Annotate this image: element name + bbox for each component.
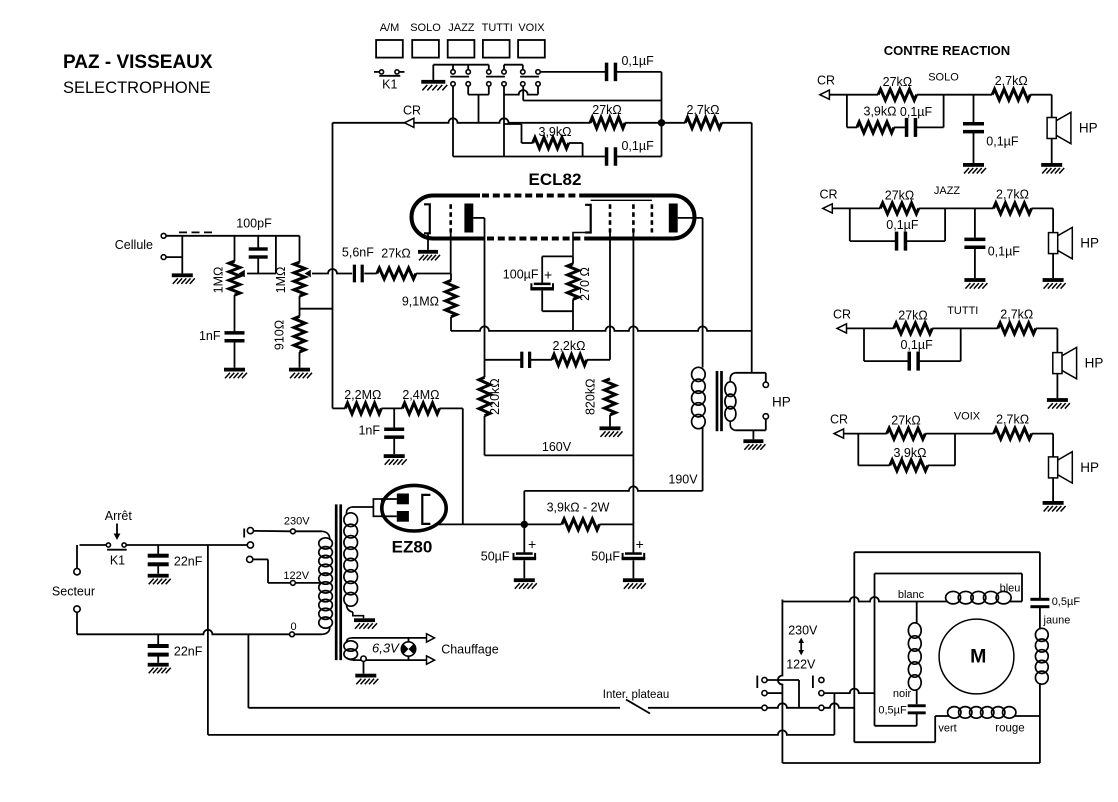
svg-text:27kΩ: 27kΩ <box>883 75 913 89</box>
motor outer box <box>853 552 855 742</box>
JAZZ parallel branch 0,1uF <box>849 208 851 241</box>
CR vertical line <box>332 123 334 409</box>
wiper line to 5.6nF <box>312 269 352 274</box>
svg-text:27kΩ: 27kΩ <box>592 103 622 117</box>
resistor 27k-ohm (TUTTI) <box>864 327 894 329</box>
svg-text:160V: 160V <box>542 440 572 454</box>
HP output terminals <box>735 372 766 374</box>
svg-text:0,1µF: 0,1µF <box>900 338 933 352</box>
vert-rouge winding <box>935 715 949 717</box>
ground HP (JAZZ) <box>1043 278 1064 282</box>
svg-text:190V: 190V <box>668 473 698 487</box>
svg-text:JAZZ: JAZZ <box>934 185 961 197</box>
SOLO parallel branch 3,9k + 0,1uF <box>846 95 848 128</box>
CR arrow (TUTTI) <box>837 327 864 329</box>
svg-text:230V: 230V <box>284 516 310 528</box>
resistor 3,9k-ohm (switch) <box>533 138 569 149</box>
pentode cathode <box>585 205 591 233</box>
node junction dot <box>658 119 665 126</box>
svg-text:0: 0 <box>290 621 296 633</box>
svg-text:+: + <box>544 267 552 283</box>
svg-text:100µF: 100µF <box>503 268 539 282</box>
svg-text:0,1µF: 0,1µF <box>621 139 654 153</box>
shield dashed <box>179 231 214 233</box>
svg-text:6,3V: 6,3V <box>372 641 400 656</box>
speaker HP (TUTTI) <box>1056 328 1058 352</box>
svg-text:2,7kΩ: 2,7kΩ <box>996 413 1029 427</box>
svg-text:2,7kΩ: 2,7kΩ <box>1000 308 1033 322</box>
svg-text:122V: 122V <box>283 570 309 582</box>
resistor 2,7k-ohm (TUTTI) <box>998 323 1036 334</box>
ground (triode cathode) <box>418 250 438 254</box>
long wire to motor (inter) <box>247 634 249 708</box>
svg-text:SELECTROPHONE: SELECTROPHONE <box>63 79 211 97</box>
capacitor 0,1uF (top) <box>605 63 609 82</box>
svg-text:SOLO: SOLO <box>928 72 959 84</box>
svg-text:27kΩ: 27kΩ <box>891 414 921 428</box>
motor switch 1 <box>756 676 758 689</box>
heater wires + arrows <box>352 637 427 639</box>
ground (HP out) <box>752 430 754 439</box>
svg-text:3,9kΩ - 2W: 3,9kΩ - 2W <box>547 501 610 515</box>
svg-text:122V: 122V <box>786 658 816 672</box>
svg-text:HP: HP <box>1080 460 1099 475</box>
cathode node / 100uF branch <box>542 255 573 257</box>
svg-text:VOIX: VOIX <box>518 22 545 34</box>
resistor 270-ohm <box>568 264 579 300</box>
svg-text:0,1µF: 0,1µF <box>988 245 1021 259</box>
svg-text:230V: 230V <box>788 624 818 638</box>
voltage selector terminals <box>243 529 245 538</box>
svg-text:2,2MΩ: 2,2MΩ <box>344 388 381 402</box>
heater center tap <box>361 656 366 661</box>
svg-text:HP: HP <box>772 395 791 410</box>
inter line to motor box <box>767 703 854 707</box>
svg-text:HP: HP <box>1080 236 1099 251</box>
svg-text:CR: CR <box>817 74 835 88</box>
push button box <box>483 40 510 58</box>
svg-text:5,6nF: 5,6nF <box>342 246 374 260</box>
capacitor 100uF <box>534 283 551 286</box>
svg-text:K1: K1 <box>382 78 397 92</box>
bus line under tube <box>451 326 751 331</box>
motor switch 2 <box>812 676 814 689</box>
wire contact4 to contact6 <box>504 90 538 95</box>
resistor 2,7k-ohm (CR) <box>685 117 721 128</box>
wire contact5 to 0.1uF line <box>522 86 524 100</box>
capacitor 50uF (first) <box>523 524 525 552</box>
push button box <box>412 40 439 58</box>
resistor 27k-ohm (grid) <box>377 268 416 279</box>
resistor 910-ohm <box>299 296 301 316</box>
resistor 220k-ohm <box>479 377 490 415</box>
ground (switch bank common) <box>432 65 434 80</box>
ground (HV) <box>354 618 375 622</box>
ground (50uF first) <box>514 578 535 582</box>
wire pot2 bottom branch <box>300 308 333 310</box>
ground (50uF second) <box>623 578 644 582</box>
contact bus wires <box>433 64 489 66</box>
CR arrow (JAZZ) <box>823 207 850 209</box>
svg-text:3,9kΩ: 3,9kΩ <box>894 446 927 460</box>
switch K1 (top) <box>374 71 379 73</box>
svg-text:220kΩ: 220kΩ <box>488 378 502 414</box>
capacitor 0,5uF (noir) <box>908 704 926 707</box>
wire right vertical <box>661 72 663 157</box>
svg-text:27kΩ: 27kΩ <box>381 247 411 261</box>
power transformer primary winding <box>295 530 322 532</box>
JAZZ shunt 0,1uF <box>974 208 976 237</box>
input top wire <box>166 235 299 237</box>
svg-text:noir: noir <box>893 688 912 700</box>
ground HP (TUTTI) <box>1047 398 1068 402</box>
svg-text:0,1µF: 0,1µF <box>986 135 1019 149</box>
potentiometer 1M (volume) <box>234 236 236 262</box>
tube EZ80 <box>382 485 446 531</box>
resistor 2,7k-ohm (JAZZ) <box>994 203 1032 214</box>
svg-text:22nF: 22nF <box>174 555 203 569</box>
bottom 0.1uF line <box>453 156 606 158</box>
CR feedback line <box>333 118 591 123</box>
top contact row <box>451 70 455 74</box>
HV top wire to EZ80 <box>352 506 373 508</box>
potentiometer 1M (tone) <box>299 236 301 263</box>
svg-text:SOLO: SOLO <box>410 22 441 34</box>
inner box <box>875 573 1023 575</box>
switch1 wires <box>767 679 799 681</box>
svg-text:2,7kΩ: 2,7kΩ <box>995 74 1028 88</box>
power transformer core <box>335 504 338 660</box>
output transformer secondary <box>730 373 735 382</box>
ground (22nF bottom) <box>148 663 169 667</box>
ground (910) <box>289 368 310 372</box>
svg-text:3,9kΩ: 3,9kΩ <box>864 105 897 119</box>
svg-text:1nF: 1nF <box>358 424 380 438</box>
svg-text:jaune: jaune <box>1043 615 1071 627</box>
svg-text:50µF: 50µF <box>481 550 510 564</box>
svg-text:CR: CR <box>403 104 421 118</box>
resistor 27k-ohm (SOLO) <box>847 94 878 96</box>
svg-text:VOIX: VOIX <box>954 410 981 422</box>
EZ80 plate leads <box>382 498 397 500</box>
svg-text:EZ80: EZ80 <box>392 538 433 557</box>
Inter. plateau line + blade <box>248 707 620 709</box>
mains bottom wire <box>77 630 289 635</box>
svg-text:1nF: 1nF <box>199 329 221 343</box>
svg-text:100pF: 100pF <box>236 217 272 231</box>
selector wires <box>254 530 291 532</box>
wire contacts2-3 join <box>467 86 469 95</box>
svg-text:270 Ω: 270 Ω <box>578 267 592 301</box>
svg-text:0,1µF: 0,1µF <box>886 218 919 232</box>
svg-text:CONTRE REACTION: CONTRE REACTION <box>884 43 1010 58</box>
pentode g3-cathode tie <box>591 199 652 201</box>
bleu winding <box>946 591 961 603</box>
speaker HP (VOIX) <box>1052 434 1054 457</box>
switch2 middle wires <box>824 689 875 694</box>
capacitor 22nF (top) <box>157 545 159 555</box>
EZ80 anode plates <box>397 494 409 505</box>
speaker HP (SOLO) <box>1051 95 1053 118</box>
svg-text:1MΩ: 1MΩ <box>212 267 226 294</box>
noir winding <box>916 602 918 625</box>
jaune winding <box>1035 628 1048 641</box>
long wire to motor (live) <box>207 545 209 735</box>
svg-text:27kΩ: 27kΩ <box>898 309 928 323</box>
ground HP (VOIX) <box>1043 501 1064 505</box>
svg-text:CR: CR <box>819 187 837 201</box>
push button box <box>518 40 545 58</box>
main selector vertical <box>778 600 783 764</box>
speaker HP (JAZZ) <box>1052 208 1054 232</box>
svg-text:0,5µF: 0,5µF <box>878 705 907 717</box>
ground (820k) <box>600 426 621 430</box>
svg-text:2,2kΩ: 2,2kΩ <box>553 339 586 353</box>
svg-text:A/M: A/M <box>380 22 400 34</box>
wire contact4 down <box>503 86 505 156</box>
CR arrow (SOLO) <box>820 94 847 96</box>
svg-text:rouge: rouge <box>995 723 1024 735</box>
svg-text:vert: vert <box>938 723 956 735</box>
CR arrow <box>404 118 414 127</box>
lamp (dial) <box>401 642 415 656</box>
ground (1nF) <box>224 368 245 372</box>
push button box <box>376 40 403 58</box>
pentode grid g2 (dashed) <box>632 204 635 232</box>
ground (JAZZ shunt) <box>964 278 985 282</box>
wire contact6 to top 0.1uF <box>540 71 606 73</box>
motor M <box>939 619 1014 694</box>
resistor 2,7k-ohm (VOIX) <box>994 428 1032 439</box>
svg-text:K1: K1 <box>110 554 125 568</box>
contact underline bars <box>450 76 469 78</box>
svg-text:CR: CR <box>830 413 848 427</box>
mains wires <box>80 544 107 546</box>
wire contact1 down <box>452 86 454 156</box>
resistor 27k-ohm (JAZZ) <box>850 207 880 209</box>
node dot B+ <box>521 521 528 528</box>
pentode grid g1 (dashed) <box>609 204 612 232</box>
svg-text:HP: HP <box>1079 121 1098 136</box>
svg-text:Cellule: Cellule <box>115 238 153 252</box>
capacitor 22nF (bottom) <box>157 634 159 645</box>
resistor 3,9k-2W <box>562 519 600 530</box>
svg-text:Chauffage: Chauffage <box>441 643 499 657</box>
svg-text:Secteur: Secteur <box>52 585 95 599</box>
resistor 820k-ohm <box>605 379 616 415</box>
bottom contact row <box>451 82 455 86</box>
resistor 2,2M-ohm <box>333 407 346 409</box>
svg-text:910Ω: 910Ω <box>273 320 287 350</box>
svg-text:M: M <box>970 646 986 668</box>
pentode anode <box>669 204 678 233</box>
160V line <box>485 454 634 456</box>
output transformer core <box>716 371 719 431</box>
capacitor 1nF (input) <box>234 295 236 332</box>
ground (heater) <box>355 674 376 678</box>
output transformer primary <box>692 367 706 381</box>
svg-text:JAZZ: JAZZ <box>448 22 475 34</box>
svg-text:+: + <box>636 536 644 552</box>
capacitor 0,5uF (jaune) <box>1030 598 1049 601</box>
triode anode <box>464 204 473 233</box>
triode grid g1 (dashed) <box>449 204 452 232</box>
EZ80 cathode <box>422 495 430 524</box>
svg-text:ECL82: ECL82 <box>529 170 582 189</box>
resistor 2,4M-ohm <box>402 403 439 414</box>
VOIX parallel branch 3,9k <box>857 434 859 466</box>
heater 6,3V winding <box>346 638 352 643</box>
wire B+ to output <box>751 123 753 373</box>
triode cathode <box>424 204 430 233</box>
svg-text:820kΩ: 820kΩ <box>584 379 598 415</box>
svg-text:TUTTI: TUTTI <box>482 22 513 34</box>
svg-text:blanc: blanc <box>898 589 925 601</box>
ground (input) <box>172 273 193 277</box>
svg-text:PAZ - VISSEAUX: PAZ - VISSEAUX <box>63 52 213 73</box>
push button box <box>448 40 475 58</box>
svg-text:2,4MΩ: 2,4MΩ <box>402 388 439 402</box>
svg-text:CR: CR <box>833 307 851 321</box>
ground (1nF coupling) <box>384 454 405 458</box>
resistor 9,1M-ohm <box>450 274 452 281</box>
CR arrow (VOIX) <box>834 433 858 435</box>
svg-text:Arrêt: Arrêt <box>105 509 133 523</box>
svg-text:2,7kΩ: 2,7kΩ <box>687 103 720 117</box>
switch K1 (mains) <box>106 543 110 547</box>
wire 3.9k branch <box>504 123 522 125</box>
capacitor 50uF (second) <box>625 552 642 555</box>
svg-text:1MΩ: 1MΩ <box>274 267 288 294</box>
svg-text:2,7kΩ: 2,7kΩ <box>996 188 1029 202</box>
capacitor 1nF (coupling) <box>393 408 395 428</box>
ground (SOLO shunt) <box>963 163 984 167</box>
svg-text:Inter. plateau: Inter. plateau <box>603 689 670 701</box>
resistor 27k-ohm (CR) <box>590 117 625 128</box>
svg-text:22nF: 22nF <box>174 645 203 659</box>
122V tap wire <box>295 582 324 584</box>
resistor 2,7k-ohm (SOLO) <box>992 89 1030 100</box>
EZ80 output wire <box>438 523 562 525</box>
190V line <box>523 491 525 525</box>
svg-text:HP: HP <box>1085 356 1104 371</box>
TUTTI parallel branch 0,1uF <box>863 328 865 361</box>
motor bottom line <box>782 762 1040 764</box>
svg-text:bleu: bleu <box>1000 583 1021 595</box>
svg-text:9,1MΩ: 9,1MΩ <box>402 295 439 309</box>
wire stem to CR line <box>478 95 480 123</box>
blanc line <box>782 597 946 602</box>
RC coupling row: cap + 2,2k <box>485 359 522 361</box>
svg-text:0,5µF: 0,5µF <box>1052 596 1081 608</box>
svg-text:0,1µF: 0,1µF <box>900 105 933 119</box>
HV bottom to ground <box>353 612 364 618</box>
ground HP (SOLO) <box>1041 163 1062 167</box>
wire wiper to pot2 <box>275 236 277 274</box>
ground (22nF top) <box>148 574 169 578</box>
HV secondary winding <box>346 507 352 514</box>
svg-text:50µF: 50µF <box>591 550 620 564</box>
svg-text:3,9kΩ: 3,9kΩ <box>539 125 572 139</box>
wire input ground <box>166 256 182 258</box>
svg-text:27kΩ: 27kΩ <box>885 189 915 203</box>
svg-text:0,1µF: 0,1µF <box>621 54 654 68</box>
SOLO shunt 0,1uF <box>973 95 975 122</box>
resistor 27k-ohm (VOIX) <box>858 433 886 435</box>
svg-text:+: + <box>528 536 536 552</box>
svg-text:TUTTI: TUTTI <box>947 305 978 317</box>
capacitor 0,1uF (bottom) <box>605 147 609 166</box>
